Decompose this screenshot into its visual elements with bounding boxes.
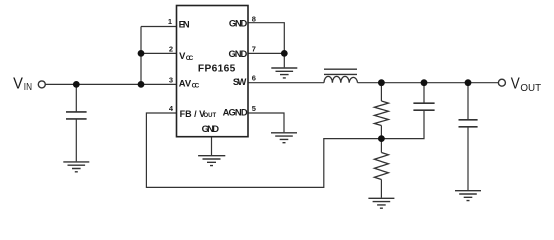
svg-text:EN: EN xyxy=(179,18,190,29)
svg-text:1: 1 xyxy=(168,17,172,26)
svg-text:GND: GND xyxy=(229,48,248,59)
svg-text:GND: GND xyxy=(229,17,248,28)
svg-text:CC: CC xyxy=(186,55,194,62)
svg-text:5: 5 xyxy=(252,104,256,113)
svg-text:CC: CC xyxy=(192,83,200,90)
svg-text:SW: SW xyxy=(233,76,247,87)
svg-text:V: V xyxy=(13,75,23,92)
svg-text:FB / V: FB / V xyxy=(180,109,206,119)
svg-text:OUT: OUT xyxy=(520,83,541,94)
svg-text:3: 3 xyxy=(169,75,173,84)
svg-text:IN: IN xyxy=(24,82,32,93)
svg-text:GND: GND xyxy=(202,123,220,134)
svg-text:6: 6 xyxy=(252,74,256,83)
svg-text:V: V xyxy=(511,76,520,93)
svg-text:7: 7 xyxy=(252,44,256,53)
svg-text:AV: AV xyxy=(179,78,192,89)
svg-text:AGND: AGND xyxy=(223,107,248,118)
svg-text:FP6165: FP6165 xyxy=(198,64,236,75)
svg-text:2: 2 xyxy=(169,44,173,53)
svg-text:OUT: OUT xyxy=(204,113,217,119)
svg-text:8: 8 xyxy=(252,15,256,24)
